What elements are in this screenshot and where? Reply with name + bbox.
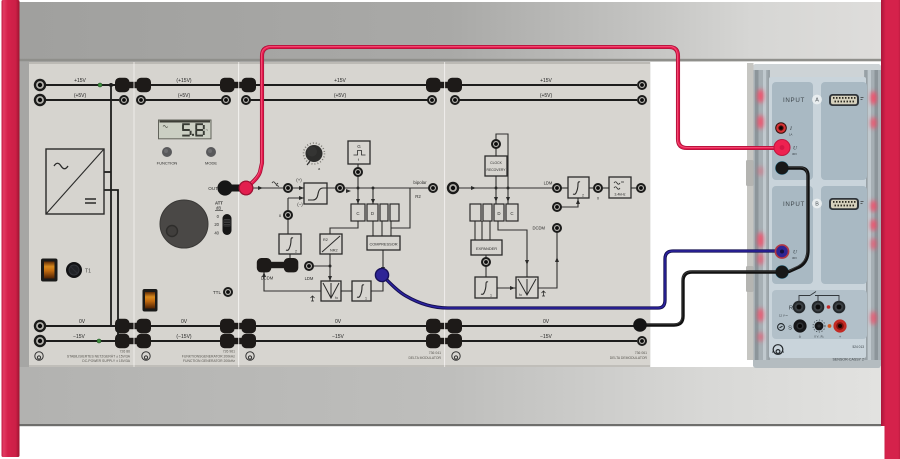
svg-text:0V: 0V — [335, 319, 342, 325]
svg-text:STABILISIERTES NETZGERÄT ± 15V: STABILISIERTES NETZGERÄT ± 15V/3A — [67, 355, 131, 359]
top band bottom dark edge — [19, 59, 881, 61]
panel 1 : power supply — [29, 62, 134, 367]
svg-text:726 86: 726 86 — [120, 350, 130, 354]
green LED -15V — [97, 339, 101, 343]
jack relay 2 — [812, 301, 825, 314]
junction dots — [495, 187, 498, 190]
jack GND input B ring — [775, 265, 789, 279]
seam lines between panels — [134, 62, 445, 367]
comparator box — [304, 183, 327, 204]
svg-text:DC-POWER SUPPLY ± 15V/3A: DC-POWER SUPPLY ± 15V/3A — [82, 359, 130, 363]
wire LDM jack to filter I2 — [561, 187, 568, 189]
svg-text:f: f — [358, 157, 360, 162]
svg-text:INPUT: INPUT — [783, 201, 805, 208]
svg-text:0V: 0V — [181, 319, 188, 325]
knob source level — [813, 320, 825, 332]
mounting claw left upper — [746, 160, 754, 186]
svg-text:+15V: +15V — [74, 78, 86, 84]
flipflop box 3 — [380, 204, 388, 221]
coupler seam2 -15V — [220, 334, 256, 348]
svg-text:30V: 30V — [792, 256, 797, 260]
flipflop box C — [351, 204, 365, 221]
jack x input — [552, 202, 562, 212]
coupler seam1 -15V — [115, 334, 151, 348]
svg-text:T1: T1 — [85, 269, 91, 275]
svg-text:0V: 0V — [543, 319, 550, 325]
arrowheads — [471, 186, 580, 290]
svg-text:−15V: −15V — [540, 334, 552, 340]
symbol pulse sample — [311, 296, 315, 301]
svg-text:DELTA MODULATOR: DELTA MODULATOR — [408, 356, 441, 360]
INPUT A left section — [772, 82, 813, 180]
plug black on 0V rail — [633, 318, 647, 332]
svg-text:D: D — [371, 211, 374, 216]
jack expander out — [481, 257, 491, 267]
svg-text:C: C — [356, 211, 359, 216]
wire +5V bus panel2 — [141, 99, 226, 101]
CASSY inner panel — [769, 77, 866, 358]
svg-text:1A: 1A — [789, 133, 793, 137]
R2 NR2 box — [320, 234, 342, 254]
svg-text:EXPANDER: EXPANDER — [476, 246, 497, 251]
switch S1 mains rocker — [41, 259, 58, 282]
left red bar — [2, 0, 20, 457]
node junction +15V — [109, 83, 113, 87]
wire NR2 down to modulator — [329, 254, 331, 281]
right red bar — [881, 0, 900, 459]
jack input left — [447, 182, 459, 194]
clock generator G box — [348, 141, 370, 164]
LED source — [828, 324, 832, 328]
wire x jack to filter — [561, 198, 578, 207]
svg-text:CLOCK: CLOCK — [490, 161, 502, 165]
svg-text:736 041: 736 041 — [429, 351, 441, 355]
wire clock recovery loop — [496, 134, 508, 204]
svg-text:+15V: +15V — [540, 78, 552, 84]
wire lowpass to out — [631, 187, 637, 189]
wire red cable generator OUT to INPUT A U — [247, 47, 774, 187]
svg-text:−15V: −15V — [73, 334, 85, 340]
svg-text:+15V: +15V — [334, 78, 346, 84]
svg-text:40: 40 — [214, 231, 219, 236]
svg-text:RECOVERY: RECOVERY — [487, 168, 507, 172]
jack DCDM — [552, 223, 562, 233]
left gray strip beside panels — [19, 62, 29, 367]
plug blue on modulator output — [375, 268, 388, 281]
D-sub connector B — [829, 198, 864, 210]
CASSY right rail — [864, 70, 881, 360]
wire black cable INPUT A ground to INPUT B ground — [787, 168, 808, 272]
LCD display — [159, 120, 212, 139]
jack LDM — [304, 261, 314, 271]
wire input line LDM — [459, 187, 552, 189]
flipflop box D — [367, 204, 378, 221]
mounting claw left lower — [746, 266, 754, 292]
logo panel1 — [35, 352, 43, 360]
svg-text:(+15V): (+15V) — [176, 78, 191, 84]
INPUT A right section — [821, 82, 867, 180]
integrator box I2 — [279, 234, 301, 254]
svg-text:(−): (−) — [297, 202, 303, 207]
mounting rail strip left — [747, 63, 754, 360]
CASSY body — [753, 64, 881, 368]
wire blue cable DM out to INPUT B U — [383, 251, 775, 308]
node +5V jack seam1 left — [119, 95, 129, 105]
svg-text:726 961: 726 961 — [223, 350, 235, 354]
node +5V jack seam1 right — [136, 95, 146, 105]
coupler seam2 +15V — [220, 78, 256, 92]
jack OUT with black bridging plug — [217, 180, 246, 195]
node +15V panel1 left jack — [34, 79, 46, 91]
jack clock top — [491, 139, 501, 149]
svg-text:2: 2 — [582, 194, 584, 198]
wire -15V bus — [40, 340, 637, 342]
svg-text:(+5V): (+5V) — [178, 93, 191, 99]
CASSY left rail — [753, 70, 770, 360]
svg-text:(−15V): (−15V) — [176, 334, 191, 340]
plug red stacked on generator OUT — [239, 181, 253, 195]
integrator box I1 — [475, 277, 497, 298]
relay source section — [772, 290, 867, 339]
svg-text:2: 2 — [295, 250, 297, 254]
svg-text:1: 1 — [490, 294, 492, 298]
svg-text:MODE: MODE — [205, 161, 217, 166]
jack TTL — [213, 287, 233, 297]
node 0V panel1 left jack — [34, 320, 46, 332]
logo CASSY — [773, 345, 784, 355]
top gray band — [19, 2, 881, 62]
wire compressor down to node — [382, 250, 384, 272]
wires panel3 schematic — [252, 164, 433, 291]
modulator box MOD — [516, 277, 538, 298]
node -15V panel4 right jack — [637, 336, 647, 346]
panel 4 : delta demodulator — [445, 62, 650, 367]
svg-text:736 061: 736 061 — [635, 351, 647, 355]
jack output right — [636, 183, 646, 193]
wire +5V bus panel1 — [40, 99, 119, 101]
panel 2 : function generator — [135, 62, 239, 367]
wire modulator to integrator1 — [341, 290, 352, 292]
svg-text:INPUT: INPUT — [783, 97, 805, 104]
wire black cable 0V to INPUT B ground — [640, 272, 778, 325]
svg-text:30V: 30V — [792, 152, 797, 156]
svg-text:20: 20 — [214, 222, 219, 227]
wire +5V bus panel4 — [455, 99, 637, 101]
converter U1 AC/DC box — [46, 149, 104, 214]
plug black at INPUT A ground — [776, 162, 789, 175]
wire modulator out to DCDM — [538, 232, 557, 288]
svg-text:D: D — [497, 211, 500, 216]
arrowheads — [258, 186, 385, 281]
plug red stackable on OUT bridge — [239, 181, 253, 195]
CASSY top cap — [753, 64, 881, 77]
svg-text:1: 1 — [365, 297, 367, 301]
switch ATT slider — [214, 201, 231, 236]
LED relay — [827, 305, 831, 309]
plug blue at INPUT B U — [775, 244, 790, 259]
svg-text:R2: R2 — [323, 238, 328, 242]
svg-text:−15V: −15V — [332, 334, 344, 340]
jack GND input A ring — [775, 161, 789, 175]
wire ff to expander — [475, 221, 490, 240]
panel4 caption — [610, 351, 648, 360]
wire +15V bus — [40, 84, 637, 86]
COMPRESSOR box — [367, 236, 400, 250]
wire clock recovery down — [495, 176, 497, 204]
svg-text:(+): (+) — [296, 178, 302, 183]
svg-text:(+5V): (+5V) — [334, 93, 347, 99]
svg-text:0 V...R₂: 0 V...R₂ — [814, 335, 823, 339]
symbol pulse sample — [542, 291, 546, 296]
logo panel4 — [452, 352, 460, 360]
node +5V jack seam2 left — [221, 95, 231, 105]
wire LDM to junction — [313, 265, 330, 267]
wire bipolar feedback — [391, 188, 410, 228]
LED glow right rail — [871, 91, 877, 325]
knob frequency small — [304, 143, 325, 171]
svg-text:bipolar: bipolar — [413, 180, 427, 185]
panel1 caption — [67, 350, 131, 364]
wire +5V bus panel3 — [246, 99, 432, 101]
svg-text:OUT: OUT — [208, 186, 218, 191]
panel 3 : delta modulator — [239, 62, 444, 367]
plug red at INPUT A U — [774, 140, 790, 156]
green LED +15V — [98, 83, 102, 87]
svg-text:~: ~ — [206, 128, 209, 133]
node +5V jack seam3 right — [450, 95, 460, 105]
wire integrator1 to node — [371, 277, 383, 291]
jack x — [283, 210, 293, 220]
jack relay 1 — [793, 301, 806, 314]
logo panel2 — [142, 352, 150, 360]
jack comparator out — [335, 183, 345, 193]
lowpass box 3.4kHz — [609, 177, 631, 198]
wire input to comparator — [252, 187, 304, 189]
coupler seam3 -15V — [426, 334, 462, 348]
bottom gray band — [19, 367, 881, 424]
node +5V panel4 right jack — [637, 95, 647, 105]
flipflop box 1 — [470, 204, 481, 221]
panel3 caption — [408, 351, 441, 360]
jack clock — [353, 167, 363, 177]
integrator box I1 — [352, 281, 371, 301]
label INPUT B — [772, 186, 813, 284]
flipflop box C — [506, 204, 518, 221]
flipflop box 4 — [390, 204, 399, 221]
svg-text:DELTA DEMODULATOR: DELTA DEMODULATOR — [610, 356, 648, 360]
coupler seam2 0V — [220, 319, 256, 333]
wire integrator to modulator — [497, 287, 516, 289]
wire minus input — [288, 198, 304, 234]
svg-text:(+5V): (+5V) — [74, 93, 87, 99]
jack x out — [593, 183, 603, 193]
button MODE — [205, 147, 217, 166]
svg-text:FUNKTIONSGENERATOR 200kHz: FUNKTIONSGENERATOR 200kHz — [182, 355, 235, 359]
wire ff to compressor — [373, 221, 391, 236]
svg-text:LDM: LDM — [544, 181, 553, 186]
svg-text:+: + — [839, 335, 841, 339]
node +15V panel4 right jack — [637, 80, 647, 90]
svg-text:524 013: 524 013 — [852, 345, 864, 349]
button T1 — [66, 262, 91, 278]
wire filter to lowpass — [603, 187, 609, 189]
svg-text:COMPRESSOR: COMPRESSOR — [369, 242, 397, 247]
EXPANDER box — [471, 240, 502, 255]
knob amplitude — [160, 200, 208, 248]
INPUT B right section — [821, 186, 867, 284]
filter box I2 — [568, 177, 589, 198]
wire comparator out to bipolar — [327, 187, 433, 189]
flipflop box D — [494, 204, 504, 221]
junction dots — [372, 187, 375, 190]
bottom band dark edge — [19, 424, 881, 426]
node +5V panel1 left jack — [34, 94, 46, 106]
svg-text:dB: dB — [216, 206, 221, 211]
svg-text:NR2: NR2 — [330, 249, 338, 253]
panel edge shadows — [29, 62, 30, 367]
node +5V jack seam2 right — [241, 95, 251, 105]
svg-text:⏚: ⏚ — [798, 334, 801, 339]
svg-text:C: C — [510, 211, 513, 216]
svg-text:0V: 0V — [79, 319, 86, 325]
svg-text:FUNCTION GENERATOR 200kHz: FUNCTION GENERATOR 200kHz — [183, 359, 235, 363]
coupler seam3 0V — [426, 319, 462, 333]
coupler seam3 +15V — [426, 78, 462, 92]
wire expander to integrator — [485, 255, 487, 277]
button FUNCTION — [157, 147, 178, 166]
svg-text:fo: fo — [519, 293, 522, 297]
LED glow left rail — [758, 89, 764, 342]
svg-text:A: A — [815, 98, 819, 104]
wire feedback bottom to DCDM — [264, 272, 321, 291]
CASSY bottom cap — [753, 355, 881, 368]
node +5V jack seam3 left — [427, 95, 437, 105]
jack source + red — [833, 319, 846, 332]
svg-text:fo: fo — [335, 296, 338, 300]
jack LDM — [552, 183, 562, 193]
rail labels — [73, 78, 552, 340]
svg-text:G: G — [357, 144, 361, 149]
svg-text:R: R — [789, 306, 793, 312]
D-sub connector A — [829, 94, 864, 106]
panel top edge shading — [29, 62, 650, 64]
wire converter to -15V — [104, 190, 118, 341]
svg-text:TTL: TTL — [213, 290, 222, 295]
svg-text:3.4kHz: 3.4kHz — [614, 193, 625, 197]
coupler DCDM bridge — [257, 258, 299, 272]
svg-text:FUNCTION: FUNCTION — [157, 161, 178, 166]
svg-text:12 V ⎓: 12 V ⎓ — [779, 314, 789, 318]
jack I input A — [775, 122, 793, 136]
jack relay 3 — [833, 301, 846, 314]
wire I2 to x jack — [589, 187, 593, 189]
svg-text:R2: R2 — [415, 194, 421, 199]
wire ff D vertical — [372, 188, 374, 204]
jack bipolar R2 — [428, 183, 438, 193]
jack input plus — [283, 183, 293, 193]
svg-text:DCDM: DCDM — [261, 276, 274, 281]
wire 0V bus — [40, 325, 637, 327]
symbol sine arrow at input — [272, 182, 279, 187]
jack source S — [793, 319, 806, 332]
modulator box MOD — [321, 281, 341, 301]
badge A — [812, 95, 822, 105]
wire clock vertical — [357, 164, 359, 204]
wire bit line to modulator — [498, 221, 527, 277]
svg-text:SENSOR-CASSY 2: SENSOR-CASSY 2 — [833, 358, 865, 362]
plug black at INPUT B ground — [776, 266, 789, 279]
svg-text:(+5V): (+5V) — [540, 93, 553, 99]
wire converter to vertical — [104, 171, 111, 173]
panel2 caption — [182, 350, 236, 364]
CLOCK RECOVERY box — [485, 156, 507, 176]
svg-text:LDM: LDM — [305, 276, 314, 281]
switch S2 rocker — [143, 289, 158, 312]
coupler seam1 +15V — [115, 78, 151, 92]
node -15V panel1 left jack — [34, 335, 46, 347]
wire integrator2 to DCDM jack — [289, 254, 291, 262]
wire C box to NR2 — [330, 221, 358, 234]
badge B — [812, 199, 822, 209]
logo panel3 — [246, 352, 254, 360]
svg-text:S: S — [788, 326, 792, 332]
coupler seam1 0V — [115, 319, 151, 333]
symbol phase icon — [778, 324, 785, 331]
svg-text:B: B — [815, 202, 819, 208]
svg-text:DCDM: DCDM — [532, 226, 545, 231]
flipflop box 2 — [483, 204, 492, 221]
wires panel4 schematic — [459, 134, 637, 288]
relay contact symbol — [799, 292, 839, 303]
wire +15V down to 0V — [110, 85, 112, 326]
